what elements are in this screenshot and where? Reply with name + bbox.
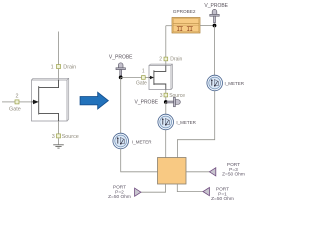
svg-text:3: 3 [52, 134, 55, 140]
port P3 triangle [209, 168, 215, 176]
wire GPROBE2 right to node [200, 25, 215, 27]
wire node down to I_METER [165, 102, 167, 114]
wire box to pin3 [58, 121, 60, 134]
pin 2 Gate [9, 93, 21, 112]
node dot [119, 76, 123, 80]
wire I_METER down and right to SUBCKT [121, 149, 158, 172]
wire drain stub [58, 32, 60, 65]
svg-text:V_PROBE: V_PROBE [135, 99, 159, 105]
svg-text:Source: Source [169, 93, 185, 99]
svg-text:2: 2 [159, 56, 162, 62]
V_PROBE VP3 icon [210, 9, 219, 22]
I_METER AMP2 [158, 114, 174, 130]
port P1 triangle [203, 188, 209, 196]
ground [53, 145, 64, 148]
svg-text:1: 1 [142, 69, 145, 75]
wire SUBCKT right to port3 [186, 171, 209, 173]
I_METER AMP1 [113, 133, 129, 149]
svg-text:GPROBE2: GPROBE2 [173, 9, 196, 14]
wire pin3 to node [165, 97, 167, 102]
wire I_METER down, left, down to SUBCKT top [177, 91, 214, 158]
svg-text:I_METER: I_METER [176, 120, 196, 125]
wire SUBCKT bottom-right down to port1 line [177, 184, 203, 192]
wire I_METER down to SUBCKT top [165, 130, 167, 158]
V_PROBE VP2 icon (rotated right) [167, 97, 180, 106]
pin 3 Source (bottom) [160, 93, 186, 99]
pin 3 Source [52, 134, 79, 140]
port P2 triangle (points right) [135, 188, 141, 196]
wire pin2 to box [165, 61, 167, 66]
wire SUBCKT bottom-left down to port2 line [141, 184, 166, 192]
svg-text:2: 2 [16, 93, 19, 99]
svg-text:V_PROBE: V_PROBE [204, 3, 228, 9]
svg-text:Z=50 Ohm: Z=50 Ohm [222, 171, 245, 177]
wire GPROBE2 corner down to pin 2 [165, 26, 167, 57]
wire gate lead [2, 101, 15, 103]
wire node down to I_METER [214, 26, 216, 76]
I_METER AMP3 [207, 75, 223, 91]
wire GPROBE2 left to FET2 drain [166, 25, 172, 27]
FET glyph inside box [32, 80, 59, 121]
wire gate pin to box [145, 76, 149, 78]
node dot right [213, 24, 217, 28]
SUBCKT box [158, 158, 187, 185]
svg-text:I_METER: I_METER [132, 139, 152, 144]
pin 1 Gate (left) [136, 69, 147, 87]
wire dot down to I_METER [120, 77, 122, 133]
wire box to pin 3 [165, 90, 167, 94]
svg-text:Z=50 Ohm: Z=50 Ohm [211, 196, 234, 202]
port P1 label [211, 187, 234, 202]
pin 2 Drain (top) [159, 56, 182, 62]
arrow [80, 92, 108, 109]
svg-text:Source: Source [62, 134, 79, 140]
svg-text:Z=50 Ohm: Z=50 Ohm [108, 194, 131, 200]
subcircuit S1 box (3D slab) [32, 78, 69, 121]
port P3 label [222, 162, 245, 177]
subcircuit S2 box (3D slab) [149, 64, 172, 89]
svg-text:Gate: Gate [136, 80, 147, 86]
svg-text:Drain: Drain [170, 56, 182, 62]
node dot source [164, 100, 168, 104]
pin 1 Drain [51, 65, 77, 71]
wire pin1 to box [58, 69, 60, 80]
svg-text:Drain: Drain [63, 65, 76, 71]
port P2 label [108, 185, 131, 200]
GPROBE2 box [172, 18, 200, 34]
wire dot to gate pin [121, 76, 144, 78]
wire pin3 to ground [58, 138, 60, 145]
svg-text:V_PROBE: V_PROBE [109, 55, 133, 61]
svg-text:3: 3 [160, 93, 163, 99]
svg-text:Gate: Gate [9, 106, 21, 112]
svg-text:1: 1 [51, 65, 54, 71]
FET2 glyph [149, 66, 166, 90]
V_PROBE VP1 icon [116, 63, 125, 76]
svg-text:I_METER: I_METER [225, 81, 245, 86]
